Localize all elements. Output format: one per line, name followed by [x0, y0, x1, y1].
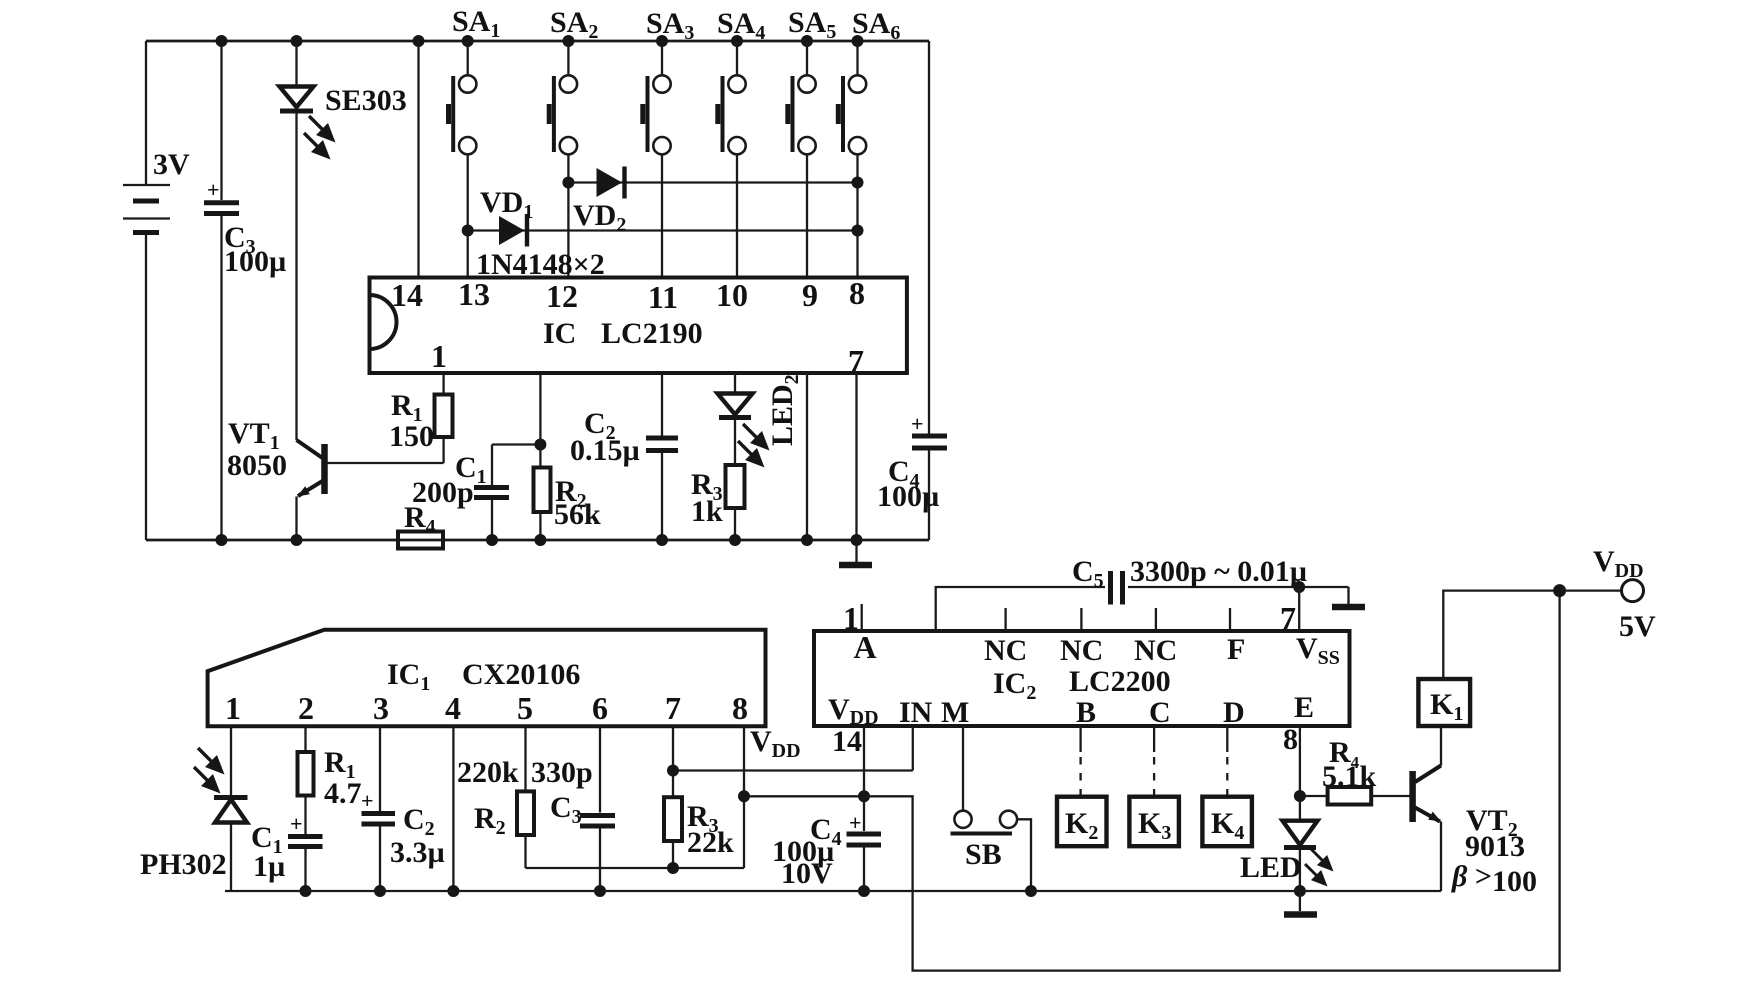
pushbutton SB — [951, 811, 1032, 891]
svg-text:IN: IN — [899, 696, 933, 729]
pin stub NC1 — [1004, 608, 1006, 631]
label IC2 LC2200 — [993, 665, 1171, 704]
wire to VDD terminal — [1560, 589, 1621, 591]
relay K2 — [1057, 797, 1107, 847]
capacitor C2 3.3u (receiver) — [362, 726, 396, 891]
svg-text:56k: 56k — [554, 498, 601, 531]
svg-text:10: 10 — [716, 277, 748, 313]
svg-text:D: D — [1223, 696, 1245, 729]
light emitting diode LED — [1283, 821, 1334, 891]
resistor R3 1k — [726, 465, 745, 540]
label R3 1k — [691, 468, 723, 528]
junction rail / C3 (receiver) — [594, 885, 606, 897]
svg-text:14: 14 — [832, 725, 862, 758]
wire M column — [962, 726, 964, 811]
junction bottom rail / pin7 ground — [851, 534, 863, 546]
junction bottom rail / x807 — [801, 534, 813, 546]
transistor VT1 8050 — [297, 440, 325, 540]
photodiode PH302 — [194, 726, 248, 891]
junction C5 wire / VSS column — [1293, 581, 1305, 593]
svg-text:9: 9 — [802, 277, 818, 313]
label C2 3.3u — [390, 803, 445, 869]
svg-text:+: + — [849, 810, 862, 835]
junction bottom rail / C3 — [216, 534, 228, 546]
svg-text:12: 12 — [546, 278, 578, 314]
terminal VDD 5V — [1622, 580, 1644, 602]
label C2 0.15u — [570, 407, 640, 467]
svg-text:+: + — [911, 411, 924, 436]
svg-text:13: 13 — [458, 276, 490, 312]
svg-text:9013: 9013 — [1465, 830, 1525, 863]
svg-text:5V: 5V — [1619, 610, 1656, 643]
label C1 1u — [251, 821, 285, 883]
junction pin8 / VDD link — [738, 790, 750, 802]
dashed wire D column — [1226, 726, 1228, 797]
svg-text:+: + — [290, 811, 303, 836]
junction R3 / bottom row — [667, 862, 679, 874]
resistor R3 22k (receiver) — [664, 726, 682, 868]
relay K1 — [1418, 679, 1470, 726]
pushbutton switch SA5 — [788, 35, 816, 278]
svg-text:11: 11 — [648, 279, 678, 315]
junction bottom rail / C2 — [656, 534, 668, 546]
pushbutton switch SA6 — [838, 35, 866, 278]
junction VDD terminal — [1553, 584, 1566, 597]
diode VD1 — [499, 214, 527, 247]
svg-text:8050: 8050 — [227, 449, 287, 482]
pin stub NC2 — [1080, 608, 1082, 631]
ground symbol (VSS) — [1332, 587, 1365, 607]
wire IC2 VDD column — [863, 726, 865, 831]
svg-text:0.15µ: 0.15µ — [570, 434, 640, 467]
label R3 22k — [687, 800, 734, 859]
wire pin 4 to rail — [452, 726, 454, 891]
svg-text:F: F — [1227, 633, 1245, 666]
wire pin7 IC1 to IN — [673, 769, 913, 771]
label R4 5.1k — [1322, 736, 1377, 793]
transistor VT2 9013 — [1413, 766, 1441, 892]
junction bottom rail / C1 — [486, 534, 498, 546]
svg-text:3V: 3V — [153, 148, 190, 181]
junction SA6 / VD1 — [852, 225, 864, 237]
svg-text:8: 8 — [849, 275, 865, 311]
label C4 100u — [877, 455, 939, 513]
svg-text:1µ: 1µ — [253, 850, 285, 883]
wire C1 top link — [492, 443, 540, 445]
svg-text:NC: NC — [984, 634, 1027, 667]
capacitor C1 200p — [474, 445, 509, 541]
label VT1 8050 — [227, 417, 287, 482]
svg-text:SE303: SE303 — [325, 84, 407, 117]
infrared emitting diode SE303 — [280, 41, 336, 440]
junction top rail / C3 — [216, 35, 228, 47]
svg-text:7: 7 — [1280, 600, 1296, 636]
junction rail / pin4 (receiver) — [447, 885, 459, 897]
svg-text:100µ: 100µ — [224, 245, 286, 278]
svg-text:8: 8 — [732, 690, 748, 726]
wire top supply rail (transmitter) — [146, 40, 929, 43]
resistor R4 (transmitter, on rail) — [398, 532, 443, 549]
svg-text:LC2190: LC2190 — [601, 317, 703, 350]
svg-text:NC: NC — [1060, 634, 1103, 667]
svg-text:LED2: LED2 — [766, 374, 803, 446]
label C1 200p — [412, 451, 487, 509]
capacitor C4 100u (transmitter) — [912, 41, 947, 540]
junction bottom rail / R2 — [534, 534, 546, 546]
wire pin8 to IC2 VDD — [744, 795, 864, 797]
junction rail / C1 (receiver) — [300, 885, 312, 897]
svg-text:3300p ~ 0.01µ: 3300p ~ 0.01µ — [1130, 555, 1307, 588]
svg-text:NC: NC — [1134, 634, 1177, 667]
junction bottom rail / R3 — [729, 534, 741, 546]
svg-text:1: 1 — [431, 338, 447, 374]
svg-text:5.1k: 5.1k — [1322, 760, 1377, 793]
junction C4 / bottom rail (receiver) — [858, 885, 870, 897]
svg-text:B: B — [1076, 696, 1096, 729]
svg-text:7: 7 — [665, 690, 681, 726]
wire pin 7 to ground rail — [855, 373, 857, 540]
svg-text:2: 2 — [298, 690, 314, 726]
label R2 56k — [554, 475, 601, 531]
pin stub NC3 — [1155, 608, 1157, 631]
wire R1 to VT1 base — [327, 462, 444, 464]
junction SA1 / VD1 — [462, 225, 474, 237]
diode VD2 — [597, 167, 625, 199]
svg-text:150: 150 — [389, 420, 434, 453]
wire bottom rail (receiver) — [225, 890, 1441, 892]
wire K1 to VDD line — [1443, 591, 1559, 679]
svg-text:3.3µ: 3.3µ — [390, 836, 445, 869]
battery BT 3V — [123, 41, 170, 540]
pin stub F — [1229, 608, 1231, 631]
junction LED / bottom rail — [1294, 885, 1306, 897]
resistor R1 150 — [435, 373, 453, 463]
pushbutton switch SA1 — [449, 35, 477, 278]
svg-text:IC: IC — [543, 317, 576, 350]
junction IC2-VDD / VDD link — [858, 790, 870, 802]
svg-text:LC2200: LC2200 — [1069, 665, 1171, 698]
svg-text:CX20106: CX20106 — [462, 658, 580, 691]
wire VSS column — [1298, 587, 1300, 631]
relay K3 — [1129, 797, 1179, 847]
svg-text:4: 4 — [445, 690, 461, 726]
pin 1 tick (IC2) — [861, 604, 863, 631]
svg-text:4.7: 4.7 — [324, 777, 362, 810]
capacitor C3 330p (receiver) — [580, 726, 615, 891]
junction pin7 / IN wire — [667, 765, 679, 777]
wire VD2 row — [568, 181, 857, 183]
svg-text:A: A — [853, 629, 876, 665]
junction E / R4 — [1294, 790, 1306, 802]
junction SB / bottom rail — [1025, 885, 1037, 897]
label IC1 CX20106 — [387, 658, 580, 695]
svg-text:6: 6 — [592, 690, 608, 726]
svg-text:M: M — [941, 696, 969, 729]
wire IN column — [912, 726, 914, 771]
wire R2 bottom row — [526, 867, 745, 869]
svg-text:1k: 1k — [691, 495, 723, 528]
label IC LC2190 — [543, 317, 703, 350]
label R1 150 — [389, 389, 434, 453]
capacitor C5 — [936, 571, 1349, 631]
resistor R2 56k — [534, 373, 551, 540]
svg-text:E: E — [1294, 691, 1314, 724]
junction SA6 / VD2 — [852, 177, 864, 189]
svg-text:330p: 330p — [531, 756, 593, 789]
svg-text:1: 1 — [225, 690, 241, 726]
label C4 100u 10V — [772, 813, 842, 890]
wire pin below IC (x=807) — [806, 373, 808, 540]
capacitor C3 100u — [204, 41, 239, 540]
svg-text:SB: SB — [965, 838, 1002, 871]
wire pin 14 column — [417, 41, 419, 278]
svg-text:220k: 220k — [457, 756, 519, 789]
IC LC2190 body — [370, 278, 907, 374]
svg-text:+: + — [361, 788, 374, 813]
svg-text:100µ: 100µ — [877, 480, 939, 513]
wire E column — [1299, 726, 1301, 820]
value label C3 100u — [224, 221, 286, 278]
pushbutton switch SA2 — [549, 35, 577, 278]
ground symbol (LED) — [1284, 891, 1317, 915]
svg-text:22k: 22k — [687, 826, 734, 859]
dashed wire C column — [1153, 726, 1155, 797]
wire VT2 collector to K1 — [1440, 726, 1442, 766]
wire VD1 row — [468, 229, 858, 231]
dashed wire B column — [1079, 726, 1081, 797]
pushbutton switch SA4 — [718, 35, 746, 278]
svg-text:β >100: β >100 — [1451, 860, 1537, 898]
resistor R4 5.1k (receiver) — [1300, 787, 1410, 805]
junction rail / C2 (receiver) — [374, 885, 386, 897]
light emitting diode LED2 — [718, 373, 770, 468]
wire pin 8 column — [743, 726, 745, 868]
ground symbol (transmitter) — [839, 540, 872, 565]
label VT2 9013 beta>100 — [1451, 804, 1537, 898]
svg-text:5: 5 — [517, 690, 533, 726]
resistor R2 220k (receiver) — [517, 726, 534, 868]
resistor R1 4.7 (receiver) — [298, 726, 314, 834]
svg-text:PH302: PH302 — [140, 848, 227, 881]
svg-text:14: 14 — [391, 277, 423, 313]
label VDD 5V — [1593, 545, 1656, 643]
junction R2 / C1 — [534, 439, 546, 451]
svg-text:8: 8 — [1283, 723, 1298, 756]
junction top rail / SE303 — [291, 35, 303, 47]
svg-text:10V: 10V — [781, 857, 833, 890]
capacitor C4 100u 10V (receiver) — [847, 834, 882, 891]
wire VDD loop to 5V terminal — [864, 591, 1560, 971]
pushbutton switch SA3 — [643, 35, 671, 278]
junction bottom rail / VT1 emitter — [291, 534, 303, 546]
relay K4 — [1202, 797, 1252, 847]
svg-text:3: 3 — [373, 690, 389, 726]
wire bottom rail (transmitter) — [146, 539, 929, 542]
svg-text:+: + — [207, 177, 220, 202]
svg-text:LED: LED — [1240, 851, 1302, 884]
IC1 CX20106 body — [208, 630, 766, 727]
capacitor C2 0.15u — [646, 373, 678, 540]
svg-text:C: C — [1149, 696, 1171, 729]
label R1 4.7 — [324, 746, 362, 810]
capacitor C1 1u (receiver) — [288, 837, 323, 892]
IC2 LC2200 body — [814, 631, 1350, 726]
junction SA2 / VD2 — [562, 177, 574, 189]
junction top rail / pin14 column — [413, 35, 425, 47]
